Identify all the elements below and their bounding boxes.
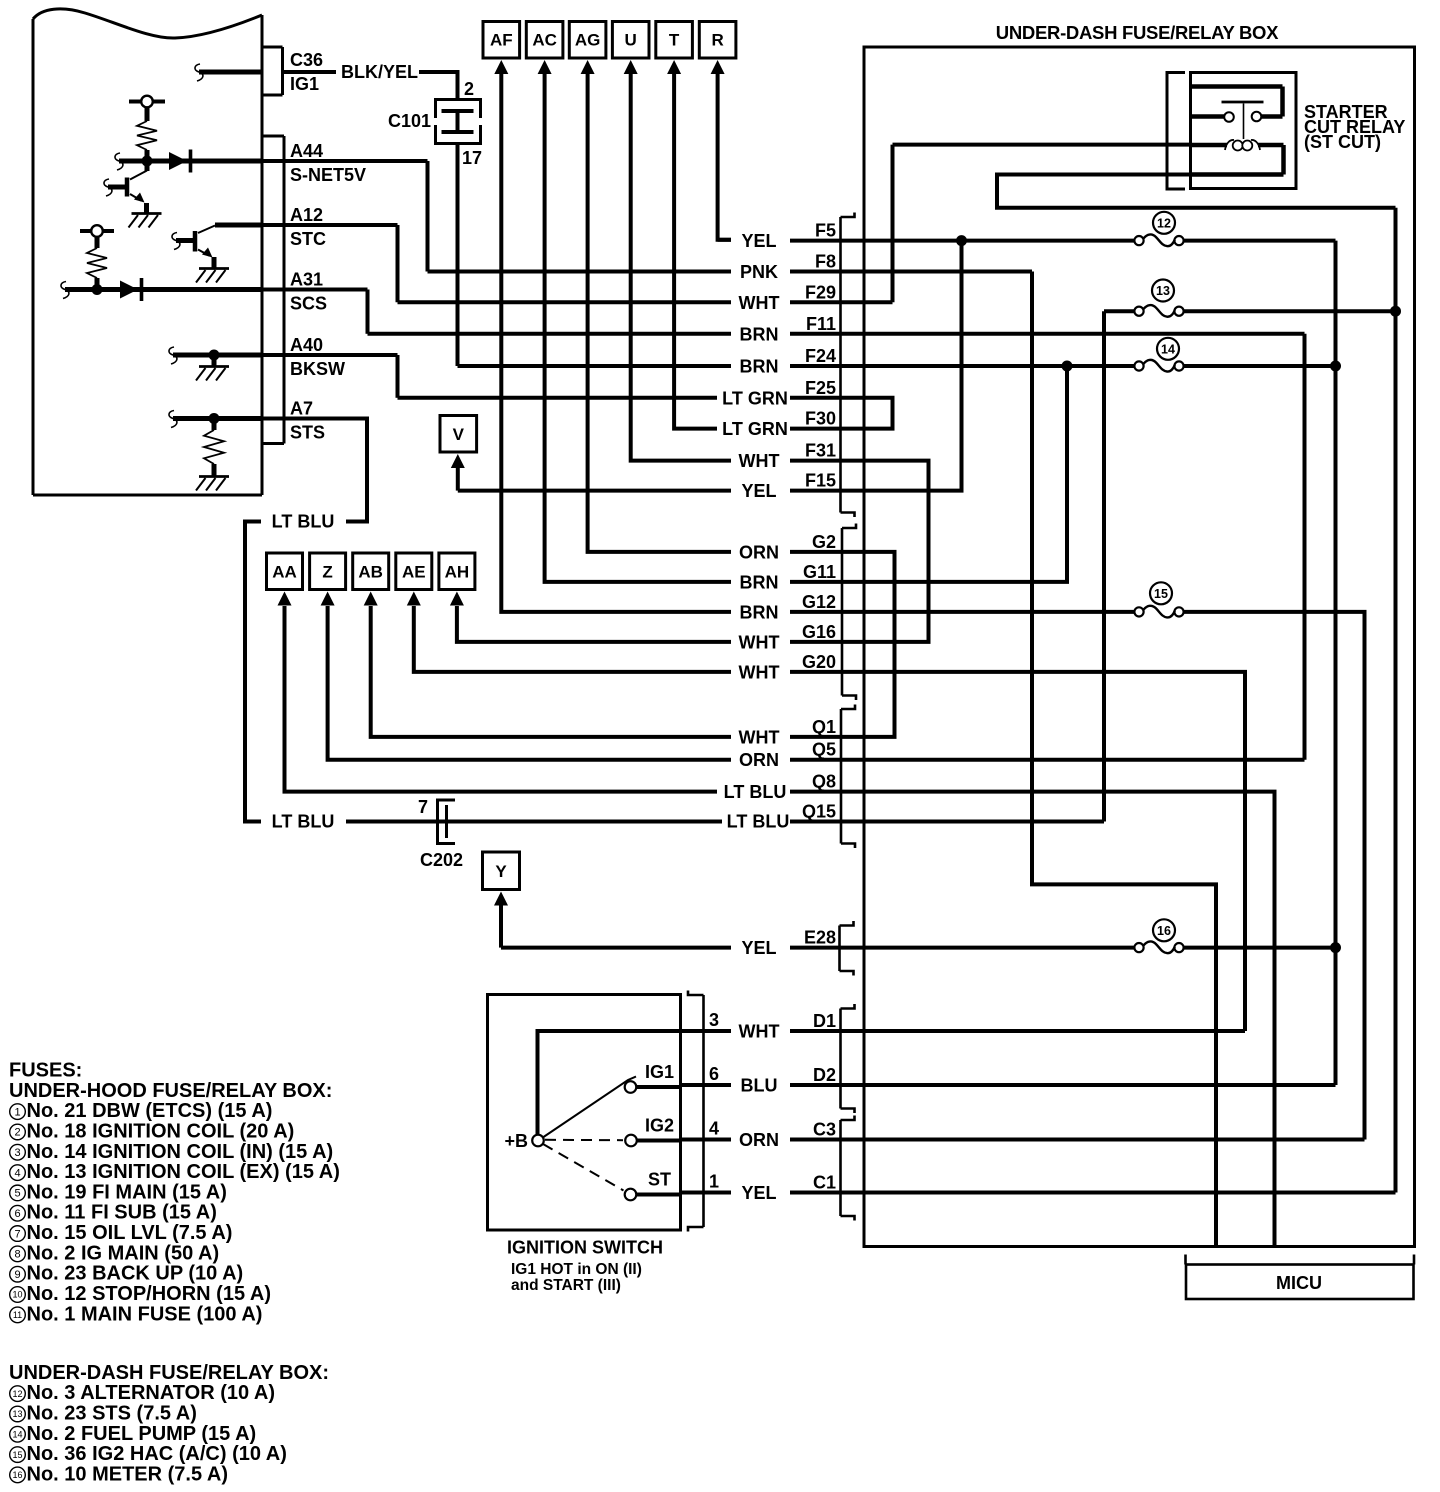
svg-text:2: 2 bbox=[464, 79, 474, 99]
svg-text:LT GRN: LT GRN bbox=[722, 388, 788, 408]
svg-text:F31: F31 bbox=[805, 441, 836, 461]
svg-text:No. 12 STOP/HORN (15 A): No. 12 STOP/HORN (15 A) bbox=[27, 1283, 272, 1305]
svg-text:F15: F15 bbox=[805, 471, 836, 491]
svg-text:BRN: BRN bbox=[740, 572, 779, 592]
svg-text:11: 11 bbox=[13, 1310, 22, 1320]
svg-text:IG1: IG1 bbox=[290, 74, 319, 94]
svg-text:A12: A12 bbox=[290, 205, 323, 225]
svg-text:9: 9 bbox=[14, 1269, 20, 1281]
svg-text:16: 16 bbox=[12, 1470, 22, 1480]
svg-text:ORN: ORN bbox=[739, 1130, 779, 1150]
svg-text:7: 7 bbox=[14, 1228, 20, 1240]
svg-text:LT GRN: LT GRN bbox=[722, 419, 788, 439]
svg-text:T: T bbox=[669, 31, 680, 50]
svg-text:1: 1 bbox=[14, 1106, 20, 1118]
svg-text:Q1: Q1 bbox=[812, 717, 836, 737]
svg-text:S-NET5V: S-NET5V bbox=[290, 165, 366, 185]
svg-text:D1: D1 bbox=[813, 1011, 836, 1031]
svg-text:LT BLU: LT BLU bbox=[272, 812, 335, 832]
svg-text:WHT: WHT bbox=[739, 727, 780, 747]
svg-text:Q5: Q5 bbox=[812, 740, 836, 760]
svg-text:8: 8 bbox=[14, 1249, 20, 1261]
svg-text:AA: AA bbox=[272, 563, 297, 582]
svg-text:A44: A44 bbox=[290, 141, 323, 161]
svg-text:1: 1 bbox=[709, 1172, 719, 1192]
svg-text:G12: G12 bbox=[802, 592, 836, 612]
svg-text:(ST CUT): (ST CUT) bbox=[1304, 132, 1381, 152]
svg-text:G20: G20 bbox=[802, 652, 836, 672]
svg-text:E28: E28 bbox=[804, 928, 836, 948]
svg-text:UNDER-DASH FUSE/RELAY BOX: UNDER-DASH FUSE/RELAY BOX bbox=[996, 22, 1279, 43]
svg-text:F30: F30 bbox=[805, 409, 836, 429]
svg-text:F24: F24 bbox=[805, 346, 836, 366]
svg-text:LT BLU: LT BLU bbox=[724, 782, 787, 802]
svg-text:12: 12 bbox=[1157, 216, 1171, 230]
svg-text:4: 4 bbox=[14, 1167, 20, 1179]
svg-text:No. 11 FI SUB (15 A): No. 11 FI SUB (15 A) bbox=[27, 1202, 217, 1224]
svg-text:Y: Y bbox=[495, 862, 507, 881]
svg-text:No. 18 IGNITION COIL (20 A): No. 18 IGNITION COIL (20 A) bbox=[27, 1120, 295, 1142]
svg-text:IG2: IG2 bbox=[645, 1116, 674, 1136]
svg-text:PNK: PNK bbox=[740, 262, 778, 282]
svg-text:No. 21 DBW (ETCS) (15 A): No. 21 DBW (ETCS) (15 A) bbox=[27, 1100, 273, 1122]
svg-text:C1: C1 bbox=[813, 1173, 836, 1193]
svg-text:IGNITION SWITCH: IGNITION SWITCH bbox=[507, 1238, 663, 1258]
svg-text:YEL: YEL bbox=[741, 231, 776, 251]
svg-text:LT BLU: LT BLU bbox=[272, 512, 335, 532]
svg-text:12: 12 bbox=[12, 1389, 22, 1399]
svg-text:14: 14 bbox=[12, 1429, 22, 1439]
svg-text:3: 3 bbox=[709, 1010, 719, 1030]
svg-text:ORN: ORN bbox=[739, 750, 779, 770]
svg-text:WHT: WHT bbox=[739, 293, 780, 313]
svg-text:15: 15 bbox=[1154, 587, 1168, 601]
svg-text:No. 14 IGNITION COIL (IN) (15: No. 14 IGNITION COIL (IN) (15 A) bbox=[27, 1141, 334, 1163]
svg-text:No. 23 STS (7.5 A): No. 23 STS (7.5 A) bbox=[27, 1402, 197, 1424]
svg-text:AG: AG bbox=[575, 31, 601, 50]
svg-text:R: R bbox=[711, 31, 723, 50]
svg-text:BKSW: BKSW bbox=[290, 359, 345, 379]
svg-text:F5: F5 bbox=[815, 221, 836, 241]
svg-text:A40: A40 bbox=[290, 335, 323, 355]
svg-text:F11: F11 bbox=[806, 314, 836, 334]
svg-text:Q8: Q8 bbox=[812, 772, 836, 792]
svg-text:C202: C202 bbox=[420, 850, 463, 870]
svg-text:YEL: YEL bbox=[741, 481, 776, 501]
svg-text:6: 6 bbox=[709, 1064, 719, 1084]
svg-text:AH: AH bbox=[445, 563, 470, 582]
svg-text:BRN: BRN bbox=[740, 357, 779, 377]
svg-text:No. 2 FUEL PUMP (15 A): No. 2 FUEL PUMP (15 A) bbox=[27, 1423, 257, 1445]
svg-text:No. 23 BACK UP (10 A): No. 23 BACK UP (10 A) bbox=[27, 1263, 244, 1285]
svg-text:Q15: Q15 bbox=[802, 802, 836, 822]
svg-text:No. 13 IGNITION COIL (EX) (15: No. 13 IGNITION COIL (EX) (15 A) bbox=[27, 1161, 340, 1183]
svg-text:ST: ST bbox=[648, 1170, 671, 1190]
svg-text:IG1 HOT in ON (II): IG1 HOT in ON (II) bbox=[511, 1261, 642, 1278]
svg-text:14: 14 bbox=[1161, 342, 1175, 356]
svg-text:AC: AC bbox=[532, 31, 557, 50]
svg-text:F29: F29 bbox=[805, 282, 836, 302]
svg-text:WHT: WHT bbox=[739, 451, 780, 471]
svg-text:SCS: SCS bbox=[290, 294, 327, 314]
svg-text:No. 10 METER (7.5 A): No. 10 METER (7.5 A) bbox=[27, 1463, 229, 1485]
svg-text:2: 2 bbox=[14, 1127, 20, 1139]
svg-text:No. 1 MAIN FUSE (100 A): No. 1 MAIN FUSE (100 A) bbox=[27, 1303, 263, 1325]
svg-text:FUSES:: FUSES: bbox=[9, 1060, 82, 1082]
svg-text:F25: F25 bbox=[805, 378, 836, 398]
svg-text:YEL: YEL bbox=[741, 1183, 776, 1203]
svg-text:BLU: BLU bbox=[741, 1076, 778, 1096]
svg-text:C101: C101 bbox=[388, 111, 431, 131]
svg-text:+B: +B bbox=[504, 1131, 528, 1151]
svg-text:BRN: BRN bbox=[740, 324, 779, 344]
svg-text:A31: A31 bbox=[290, 270, 323, 290]
svg-text:UNDER-HOOD FUSE/RELAY BOX:: UNDER-HOOD FUSE/RELAY BOX: bbox=[9, 1080, 332, 1102]
svg-text:No. 3 ALTERNATOR (10 A): No. 3 ALTERNATOR (10 A) bbox=[27, 1382, 276, 1404]
svg-text:16: 16 bbox=[1157, 924, 1171, 938]
svg-text:WHT: WHT bbox=[739, 632, 780, 652]
svg-text:LT BLU: LT BLU bbox=[727, 812, 790, 832]
svg-text:AB: AB bbox=[358, 563, 383, 582]
svg-text:No. 2 IG MAIN (50 A): No. 2 IG MAIN (50 A) bbox=[27, 1242, 220, 1264]
svg-text:5: 5 bbox=[14, 1188, 20, 1200]
svg-text:AE: AE bbox=[402, 563, 426, 582]
svg-text:4: 4 bbox=[709, 1119, 719, 1139]
svg-text:6: 6 bbox=[14, 1208, 20, 1220]
svg-text:MICU: MICU bbox=[1276, 1273, 1322, 1293]
svg-text:WHT: WHT bbox=[739, 1022, 780, 1042]
svg-text:D2: D2 bbox=[813, 1065, 836, 1085]
svg-text:AF: AF bbox=[490, 31, 513, 50]
svg-text:BRN: BRN bbox=[740, 602, 779, 622]
svg-text:A7: A7 bbox=[290, 399, 313, 419]
svg-text:G2: G2 bbox=[812, 532, 836, 552]
svg-text:UNDER-DASH FUSE/RELAY BOX:: UNDER-DASH FUSE/RELAY BOX: bbox=[9, 1362, 329, 1384]
svg-text:G16: G16 bbox=[802, 622, 836, 642]
svg-text:F8: F8 bbox=[815, 252, 836, 272]
svg-text:G11: G11 bbox=[803, 562, 836, 582]
svg-text:10: 10 bbox=[12, 1290, 22, 1300]
svg-text:13: 13 bbox=[1156, 284, 1170, 298]
svg-text:STC: STC bbox=[290, 229, 326, 249]
svg-text:13: 13 bbox=[12, 1409, 22, 1419]
svg-text:WHT: WHT bbox=[739, 662, 780, 682]
svg-text:17: 17 bbox=[462, 148, 482, 168]
svg-text:BLK/YEL: BLK/YEL bbox=[341, 62, 418, 82]
svg-text:3: 3 bbox=[14, 1147, 20, 1159]
svg-text:C36: C36 bbox=[290, 50, 323, 70]
svg-text:IG1: IG1 bbox=[645, 1062, 674, 1082]
svg-text:No. 15 OIL LVL (7.5 A): No. 15 OIL LVL (7.5 A) bbox=[27, 1222, 233, 1244]
svg-text:No. 19 FI MAIN (15 A): No. 19 FI MAIN (15 A) bbox=[27, 1181, 227, 1203]
svg-text:STS: STS bbox=[290, 423, 325, 443]
svg-text:No. 36 IG2 HAC (A/C) (10 A): No. 36 IG2 HAC (A/C) (10 A) bbox=[27, 1443, 287, 1465]
svg-text:C3: C3 bbox=[813, 1120, 836, 1140]
svg-text:YEL: YEL bbox=[741, 938, 776, 958]
svg-text:15: 15 bbox=[12, 1450, 22, 1460]
svg-text:Z: Z bbox=[322, 563, 332, 582]
svg-text:ORN: ORN bbox=[739, 542, 779, 562]
svg-text:and START (III): and START (III) bbox=[511, 1277, 621, 1294]
svg-text:V: V bbox=[453, 425, 465, 444]
svg-text:7: 7 bbox=[418, 797, 428, 817]
svg-text:U: U bbox=[625, 31, 637, 50]
